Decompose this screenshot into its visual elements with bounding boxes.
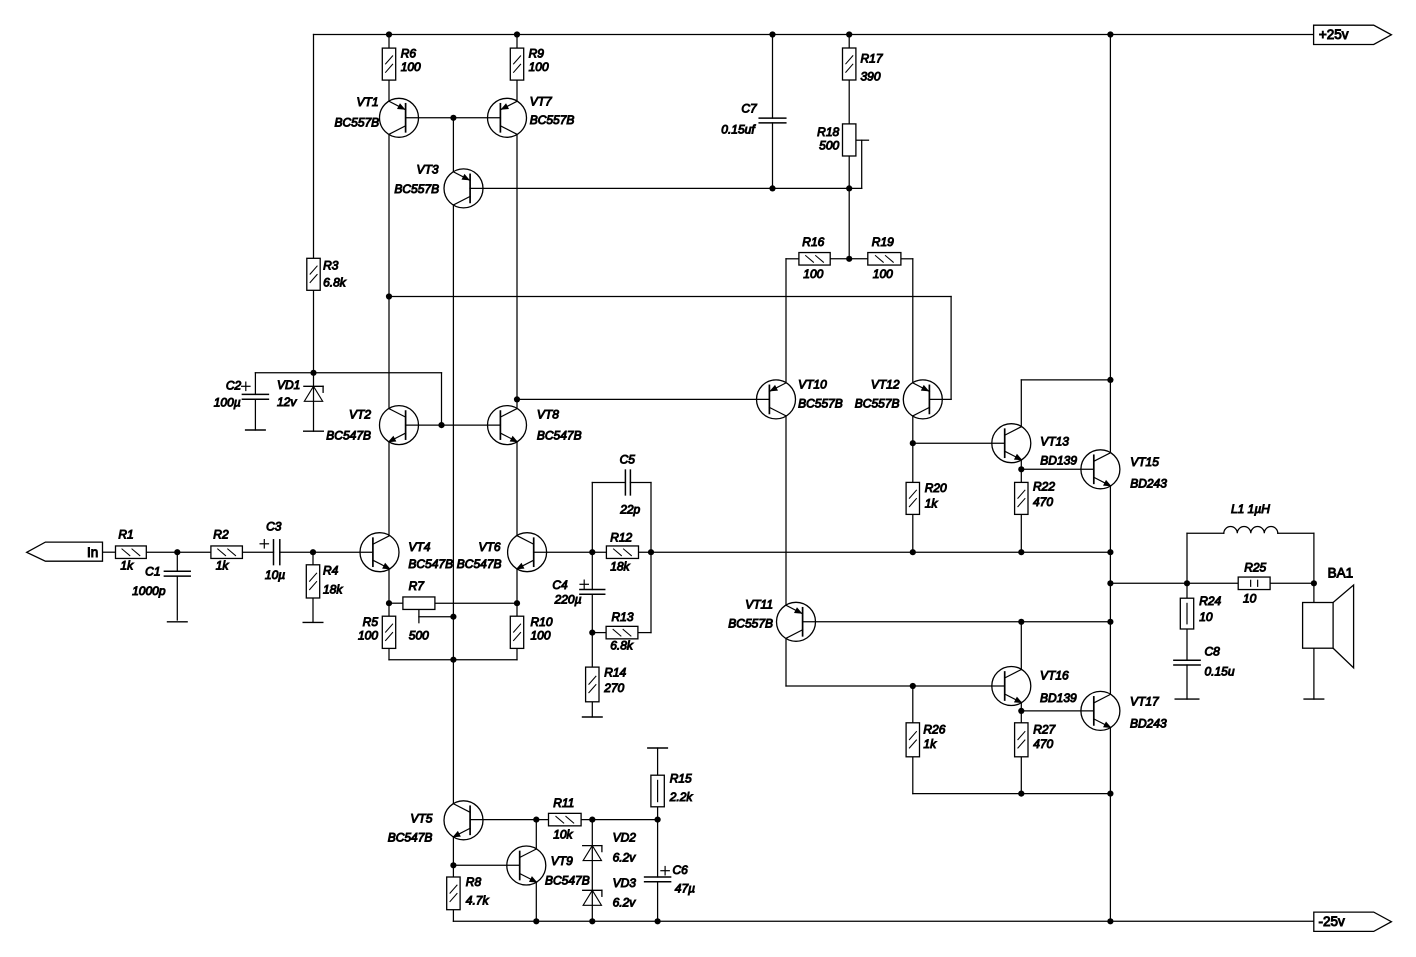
svg-text:VT17: VT17 <box>1130 694 1160 708</box>
svg-text:BC547B: BC547B <box>457 557 502 571</box>
svg-text:390: 390 <box>861 70 881 84</box>
svg-text:R7: R7 <box>409 579 426 593</box>
svg-text:270: 270 <box>603 681 624 695</box>
svg-text:R8: R8 <box>466 875 482 889</box>
svg-text:R16: R16 <box>802 235 824 249</box>
svg-text:1k: 1k <box>923 737 937 751</box>
svg-text:+25v: +25v <box>1319 27 1349 42</box>
svg-text:VT6: VT6 <box>478 540 500 554</box>
svg-text:100: 100 <box>803 267 823 281</box>
svg-text:VT1: VT1 <box>356 95 378 109</box>
svg-text:BC557B: BC557B <box>394 182 439 196</box>
svg-text:18k: 18k <box>323 583 343 597</box>
svg-text:22p: 22p <box>619 502 640 516</box>
svg-text:BC557B: BC557B <box>728 617 773 631</box>
svg-text:C6: C6 <box>673 863 689 877</box>
svg-text:R9: R9 <box>529 47 545 61</box>
svg-text:C8: C8 <box>1205 644 1221 658</box>
svg-text:BD243: BD243 <box>1130 476 1167 490</box>
svg-text:R2: R2 <box>213 527 229 541</box>
svg-text:100: 100 <box>401 60 421 74</box>
svg-text:1k: 1k <box>925 496 939 510</box>
svg-text:18k: 18k <box>610 560 630 574</box>
svg-text:6.2v: 6.2v <box>613 896 637 910</box>
svg-text:R5: R5 <box>363 615 379 629</box>
svg-text:10: 10 <box>1199 610 1213 624</box>
svg-text:12v: 12v <box>277 395 297 409</box>
svg-text:BD139: BD139 <box>1040 691 1077 705</box>
svg-text:R14: R14 <box>604 665 626 679</box>
svg-text:BC557B: BC557B <box>855 397 900 411</box>
svg-text:100µ: 100µ <box>214 395 241 409</box>
svg-text:BC547B: BC547B <box>545 874 590 888</box>
svg-text:VD3: VD3 <box>613 876 637 890</box>
svg-text:R18: R18 <box>817 125 839 139</box>
svg-text:-25v: -25v <box>1319 914 1346 929</box>
svg-text:VT15: VT15 <box>1130 455 1159 469</box>
svg-text:0.15u: 0.15u <box>1205 665 1235 679</box>
svg-text:VT7: VT7 <box>530 95 553 109</box>
svg-text:R10: R10 <box>531 615 553 629</box>
svg-text:VT2: VT2 <box>349 408 371 422</box>
svg-text:In: In <box>87 545 98 560</box>
svg-text:100: 100 <box>358 629 378 643</box>
svg-text:BD139: BD139 <box>1040 454 1077 468</box>
svg-text:10k: 10k <box>553 828 573 842</box>
svg-text:R17: R17 <box>861 52 884 66</box>
svg-text:BA1: BA1 <box>1328 566 1354 581</box>
svg-text:C1: C1 <box>145 565 160 579</box>
svg-text:100: 100 <box>873 267 893 281</box>
svg-text:0.15uf: 0.15uf <box>721 122 756 136</box>
svg-text:C5: C5 <box>620 453 636 467</box>
svg-text:R26: R26 <box>923 722 945 736</box>
svg-text:10: 10 <box>1243 592 1257 606</box>
svg-text:500: 500 <box>819 139 839 153</box>
svg-text:VT3: VT3 <box>416 163 438 177</box>
svg-text:R22: R22 <box>1033 480 1055 494</box>
svg-text:100: 100 <box>529 60 549 74</box>
svg-text:47µ: 47µ <box>675 882 695 896</box>
svg-text:1000p: 1000p <box>132 584 166 598</box>
svg-text:R11: R11 <box>553 796 574 810</box>
svg-text:BC557B: BC557B <box>530 113 575 127</box>
svg-text:BC547B: BC547B <box>388 831 433 845</box>
svg-text:L1 1µH: L1 1µH <box>1231 502 1270 516</box>
svg-text:VT16: VT16 <box>1040 668 1069 682</box>
svg-text:R15: R15 <box>670 772 692 786</box>
svg-text:500: 500 <box>409 629 429 643</box>
svg-text:1k: 1k <box>216 559 230 573</box>
svg-text:1k: 1k <box>120 559 134 573</box>
svg-text:C3: C3 <box>266 520 282 534</box>
svg-text:BC557B: BC557B <box>798 397 843 411</box>
svg-text:6.8k: 6.8k <box>323 275 347 289</box>
svg-text:BC547B: BC547B <box>408 557 453 571</box>
svg-text:2.2k: 2.2k <box>669 790 694 804</box>
svg-text:VT10: VT10 <box>798 378 827 392</box>
svg-text:R19: R19 <box>872 235 894 249</box>
svg-text:R25: R25 <box>1244 561 1266 575</box>
svg-text:VT8: VT8 <box>537 408 559 422</box>
svg-text:VD2: VD2 <box>613 831 637 845</box>
svg-text:BC547B: BC547B <box>326 429 371 443</box>
svg-text:470: 470 <box>1033 495 1053 509</box>
svg-text:BD243: BD243 <box>1130 717 1167 731</box>
svg-text:VT9: VT9 <box>551 854 573 868</box>
svg-text:BC547B: BC547B <box>537 429 582 443</box>
svg-text:220µ: 220µ <box>554 593 582 607</box>
svg-text:R27: R27 <box>1033 722 1056 736</box>
svg-text:470: 470 <box>1033 737 1053 751</box>
svg-text:R12: R12 <box>610 531 632 545</box>
svg-text:R20: R20 <box>925 481 947 495</box>
svg-text:6.8k: 6.8k <box>610 639 634 653</box>
svg-text:4.7k: 4.7k <box>466 893 490 907</box>
svg-text:R13: R13 <box>612 610 634 624</box>
svg-text:VT4: VT4 <box>408 540 430 554</box>
svg-text:R1: R1 <box>118 527 133 541</box>
svg-text:VT11: VT11 <box>745 598 773 612</box>
svg-text:R24: R24 <box>1199 594 1221 608</box>
svg-text:VT5: VT5 <box>410 811 432 825</box>
svg-text:6.2v: 6.2v <box>613 850 637 864</box>
svg-text:VT13: VT13 <box>1040 434 1069 448</box>
svg-text:100: 100 <box>531 629 551 643</box>
svg-text:R6: R6 <box>401 47 417 61</box>
svg-text:BC557B: BC557B <box>334 116 379 130</box>
svg-text:C2: C2 <box>226 378 242 392</box>
svg-text:C4: C4 <box>552 578 568 592</box>
svg-text:VT12: VT12 <box>871 378 900 392</box>
svg-text:VD1: VD1 <box>277 378 300 392</box>
svg-text:C7: C7 <box>741 102 758 116</box>
svg-text:R3: R3 <box>323 259 339 273</box>
svg-text:10µ: 10µ <box>265 568 285 582</box>
svg-text:R4: R4 <box>323 563 339 577</box>
